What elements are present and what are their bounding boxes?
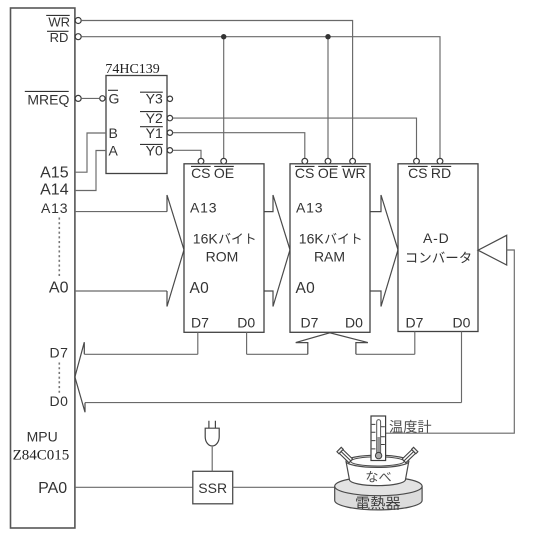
svg-text:D7: D7 [301,314,319,330]
wire Y0 to ROM CS [173,150,201,158]
heater cylinder body [335,486,422,510]
bubble WR [75,18,81,24]
svg-text:D7: D7 [191,314,209,330]
wire PA0 to SSR [75,486,193,488]
svg-text:RD: RD [431,165,451,181]
svg-text:PA0: PA0 [38,480,67,497]
AD D0 pin wire [461,332,463,403]
dotted line D7..D0 [58,363,60,394]
RAM chip box [290,164,370,332]
wire WR net [81,21,352,159]
svg-text:D0: D0 [453,314,471,330]
ROM pin OE [221,158,227,164]
thermometer capillary [377,420,381,453]
pot rim outer [346,455,409,467]
amp buffer triangle [478,235,507,265]
svg-text:D7: D7 [406,314,424,330]
svg-text:A: A [109,143,119,159]
AD converter chip box [398,164,478,332]
wire plug to SSR [211,447,213,472]
bubble MREQ [75,95,81,101]
wire Y2 to AD CS [173,118,417,158]
ROM D0 pin wire [246,332,248,354]
data bus line D7 seg2 [247,353,308,355]
pot body [346,461,409,485]
svg-text:B: B [109,125,118,141]
label thermometer (ondokei) [390,420,403,433]
svg-text:Y0: Y0 [146,143,163,159]
MPU Z84C015 box [11,8,75,528]
ROM D7 pin wire [197,332,199,354]
decoder 74HC139 box [106,76,167,174]
wire MREQ to G [81,97,100,99]
thermometer mercury [377,437,380,453]
svg-text:WR: WR [342,165,365,181]
RAM pin OE [325,158,331,164]
wire Y1 to RAM CS [173,133,305,159]
wire RD net [81,37,440,159]
svg-text:OE: OE [214,165,234,181]
wire triangle to thermometer [386,250,514,433]
svg-text:A-D: A-D [423,230,450,246]
svg-text:A14: A14 [40,182,69,199]
wire A15 to B [75,133,106,172]
label pot (nabe) [367,471,378,482]
bubble RD [75,34,81,40]
svg-text:Y2: Y2 [146,110,163,126]
AD pin CS [414,158,420,164]
svg-text:G: G [109,90,120,106]
data bus line D0 [85,402,462,404]
svg-text:D0: D0 [345,314,363,330]
data bus line D7 seg3 [356,353,415,355]
svg-text:MREQ: MREQ [27,91,69,107]
AD label converter [407,253,416,262]
ROM chip box [184,164,264,332]
bus arrow RAM to AD [370,195,398,307]
data bus line D7 seg1 [84,353,198,355]
pot rim inner [351,457,404,466]
svg-text:A15: A15 [40,165,69,182]
data bus arrow into MPU [75,342,85,412]
svg-text:A13: A13 [296,200,323,216]
wire A14 to A [75,151,106,191]
thermometer ticks [372,424,385,449]
svg-text:D7: D7 [49,344,68,360]
SSR box [193,471,233,504]
svg-text:MPU: MPU [27,428,58,444]
AC plug prongs [209,421,216,429]
bus arrow MPU to ROM [167,195,184,307]
wire SSR to heater [233,486,335,488]
svg-text:74HC139: 74HC139 [105,62,159,77]
wire RD to ROM OE [223,37,225,159]
svg-text:WR: WR [48,14,70,29]
AD D7 pin wire [414,332,416,355]
wire A0 bus [75,290,167,292]
svg-text:OE: OE [318,165,338,181]
thermometer bulb [375,452,381,458]
ROM pin CS [198,158,204,164]
svg-text:A0: A0 [296,280,316,297]
heater top ellipse [335,477,422,496]
svg-text:Y3: Y3 [146,90,163,106]
svg-text:RAM: RAM [314,248,345,264]
svg-text:D0: D0 [49,393,68,409]
svg-text:A0: A0 [49,280,69,297]
pot handle left [337,447,353,462]
AD pin RD [437,158,443,164]
svg-text:Z84C015: Z84C015 [13,448,70,464]
svg-text:D0: D0 [237,314,255,330]
svg-text:A13: A13 [41,200,68,216]
svg-text:A0: A0 [190,280,210,297]
RAM data bus up-arrow [296,333,368,355]
wire RD to RAM OE [327,37,329,159]
RAM pin CS [302,158,308,164]
svg-text:16K: 16K [299,230,325,246]
pot handle right [402,447,418,462]
RAM pin WR [350,158,356,164]
label heater (dennetsuki) [356,496,400,510]
AC plug body [205,428,219,446]
svg-text:ROM: ROM [206,248,239,264]
svg-text:RD: RD [50,30,69,45]
svg-text:SSR: SSR [198,480,227,496]
thermometer body [371,416,386,461]
svg-text:Y1: Y1 [146,125,163,141]
dotted line A13..A0 [58,218,60,277]
svg-text:16K: 16K [193,230,219,246]
junction dot RD/RAM-OE [325,34,330,39]
svg-text:A13: A13 [190,200,217,216]
svg-text:CS: CS [191,165,210,181]
bus arrow ROM to RAM [264,195,290,307]
svg-text:CS: CS [295,165,314,181]
wire A13 bus [75,211,167,213]
junction dot RD/ROM-OE [221,34,226,39]
svg-text:CS: CS [408,165,427,181]
